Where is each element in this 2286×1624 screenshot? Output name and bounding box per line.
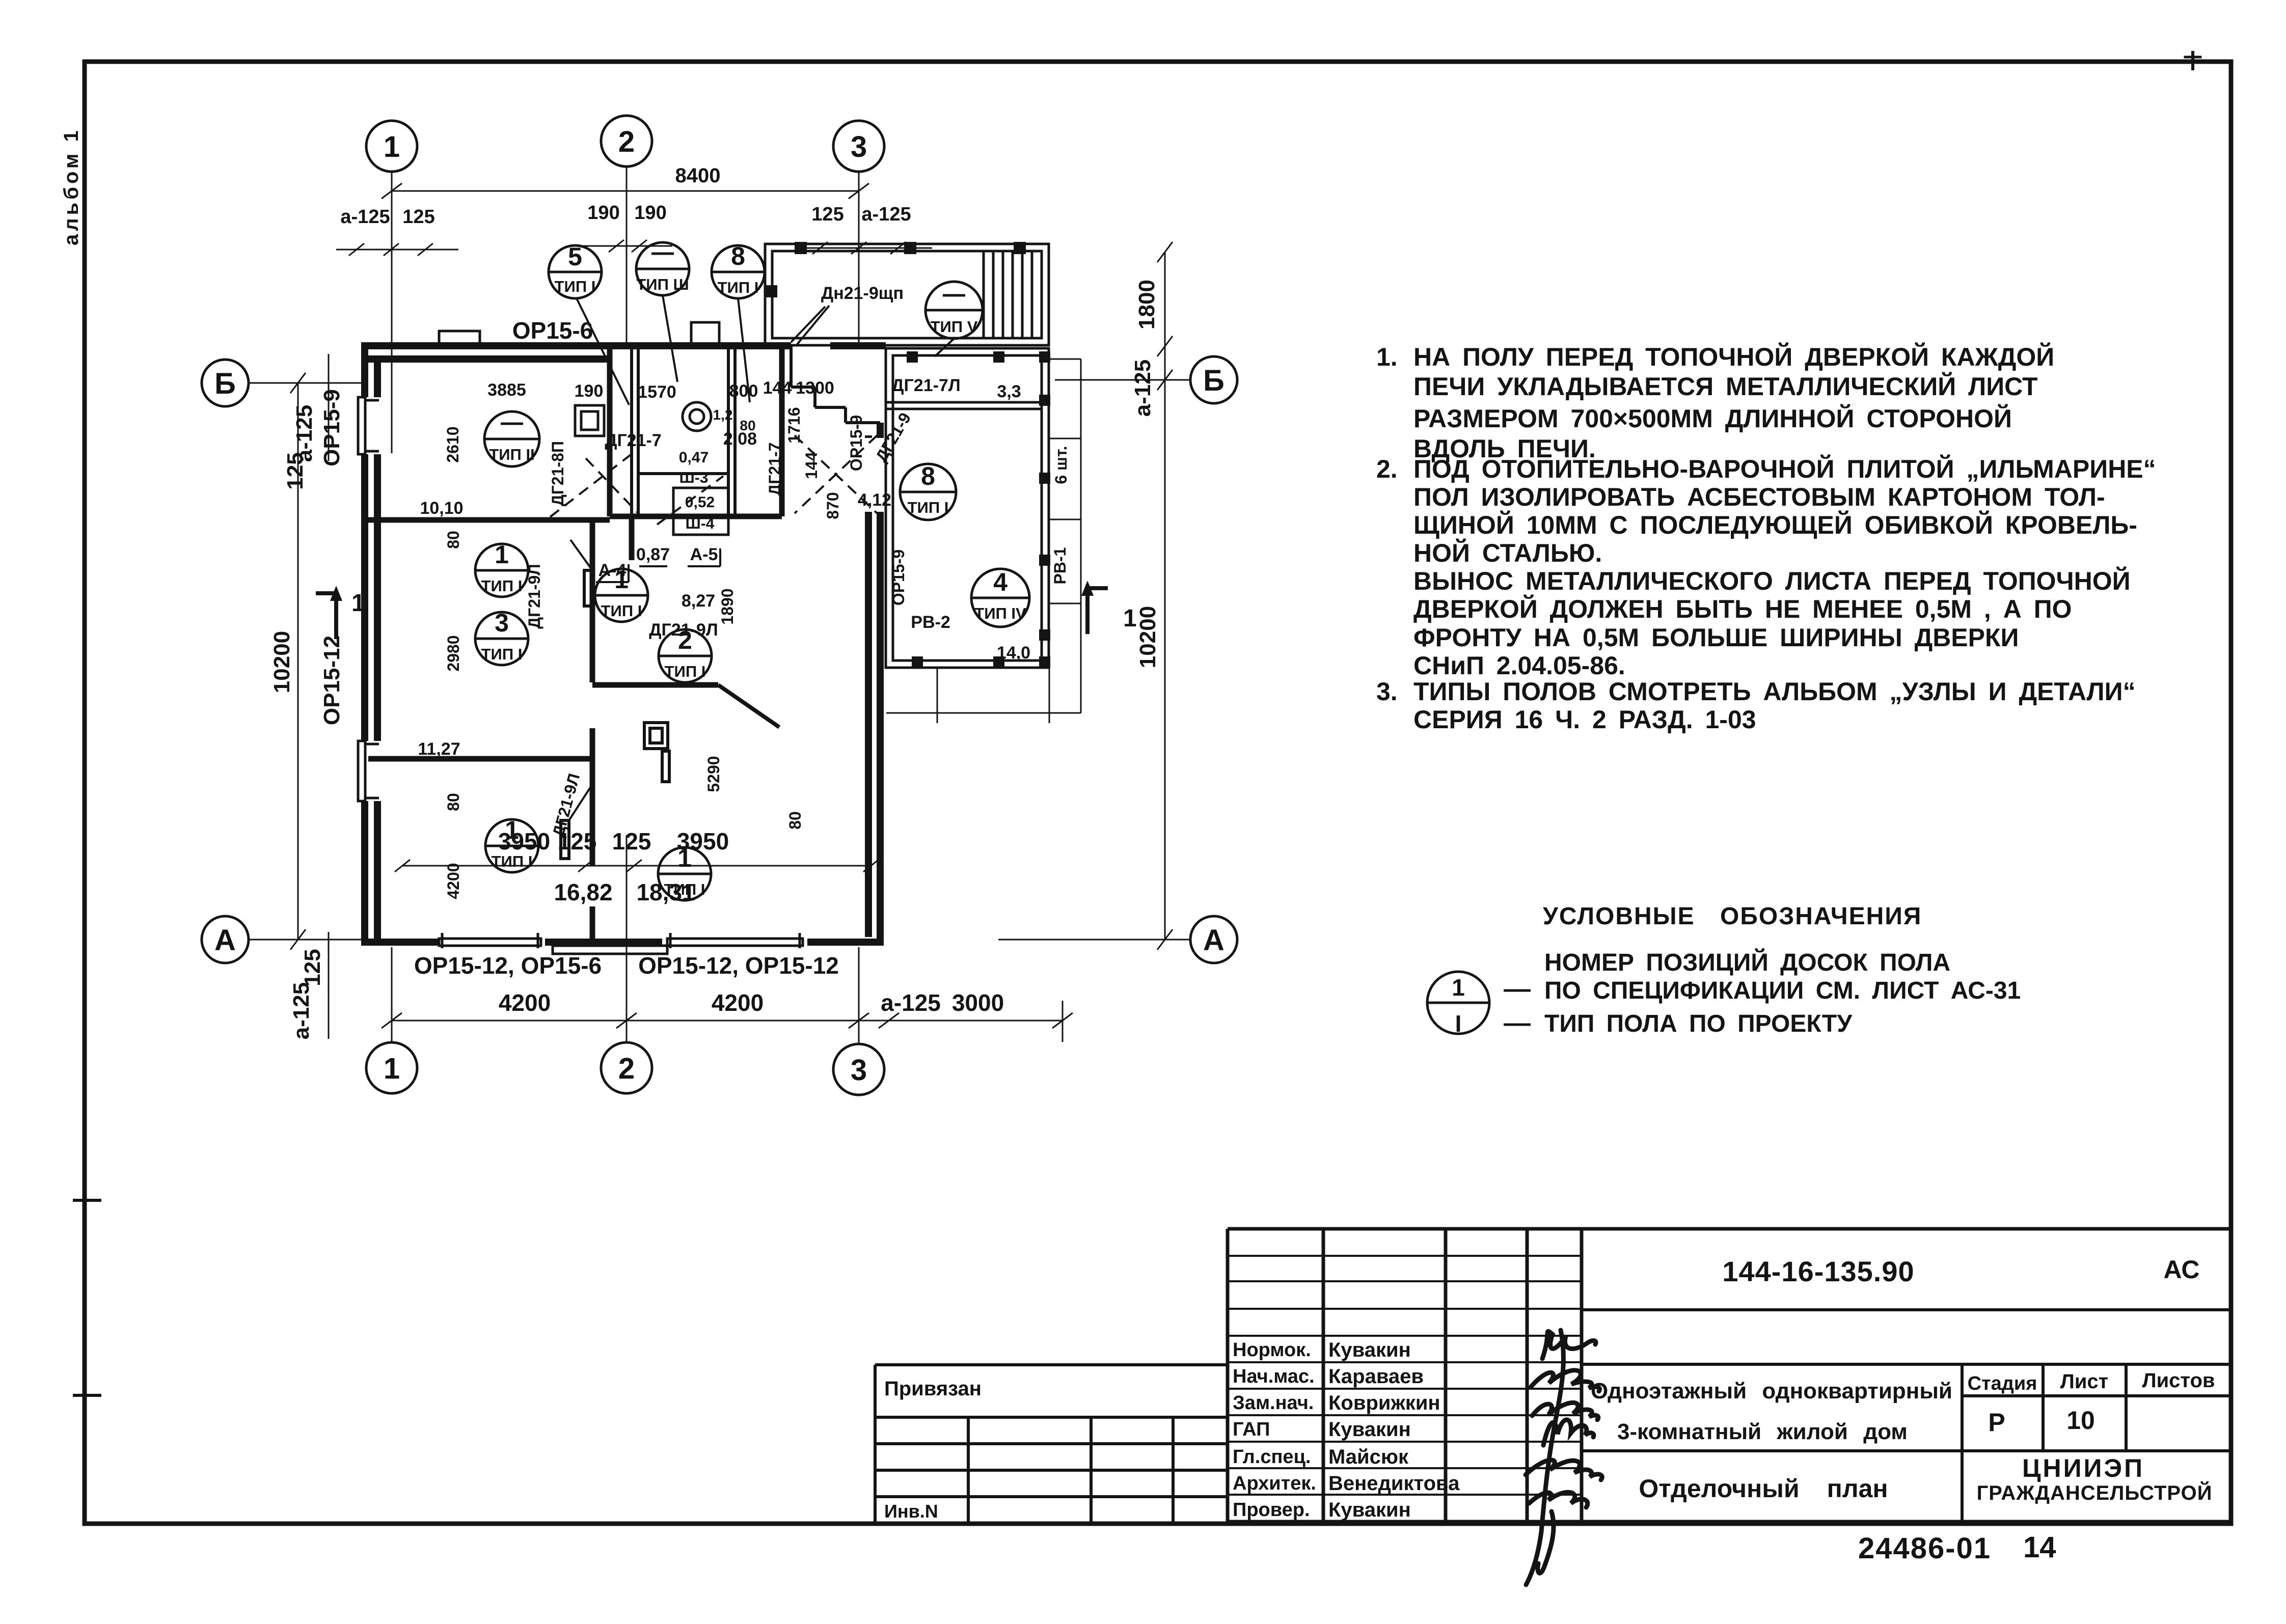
svg-text:8: 8: [731, 242, 745, 270]
svg-text:11,27: 11,27: [418, 739, 460, 759]
svg-text:3-комнатный жилой дом: 3-комнатный жилой дом: [1617, 1419, 1908, 1444]
svg-text:ОР15-12, ОР15-12: ОР15-12, ОР15-12: [638, 952, 839, 979]
svg-text:3: 3: [495, 609, 509, 637]
svg-text:80: 80: [786, 811, 804, 830]
svg-text:1: 1: [495, 540, 509, 569]
svg-text:8400: 8400: [675, 164, 721, 187]
svg-text:80: 80: [444, 531, 462, 549]
svg-text:3,3: 3,3: [997, 382, 1021, 401]
svg-text:24486-01: 24486-01: [1858, 1532, 1991, 1565]
svg-text:Кувакин: Кувакин: [1328, 1339, 1411, 1361]
svg-text:2610: 2610: [444, 426, 462, 462]
svg-text:1800: 1800: [1134, 280, 1159, 329]
svg-text:14: 14: [2023, 1531, 2056, 1564]
svg-text:ТИП I: ТИП I: [481, 577, 523, 595]
svg-text:ОР15-12: ОР15-12: [319, 636, 344, 725]
svg-text:ТИП I: ТИП I: [718, 279, 759, 296]
svg-text:Майсюк: Майсюк: [1328, 1446, 1409, 1468]
svg-text:НА ПОЛУ ПЕРЕД ТОПОЧНОЙ ДВЕРКОЙ: НА ПОЛУ ПЕРЕД ТОПОЧНОЙ ДВЕРКОЙ КАЖДОЙ: [1413, 342, 2054, 371]
svg-text:800: 800: [729, 381, 758, 401]
svg-text:2: 2: [618, 1052, 635, 1085]
svg-text:Гл.спец.: Гл.спец.: [1233, 1446, 1311, 1468]
svg-text:а-125: а-125: [289, 982, 314, 1040]
svg-text:ДГ21-8П: ДГ21-8П: [549, 441, 567, 506]
svg-text:Отделочный план: Отделочный план: [1639, 1474, 1888, 1503]
svg-text:Дн21-9щп: Дн21-9щп: [821, 284, 904, 303]
svg-text:Кувакин: Кувакин: [1328, 1499, 1411, 1521]
svg-text:ТИП IV: ТИП IV: [974, 604, 1026, 622]
svg-text:125: 125: [612, 828, 651, 855]
svg-text:Нач.мас.: Нач.мас.: [1233, 1366, 1315, 1387]
svg-text:125: 125: [811, 204, 843, 225]
svg-text:ЩИНОЙ 10ММ С ПОСЛЕДУЮЩЕЙ ОБИВК: ЩИНОЙ 10ММ С ПОСЛЕДУЮЩЕЙ ОБИВКОЙ КРОВЕЛЬ…: [1413, 510, 2137, 539]
svg-text:3: 3: [851, 130, 867, 163]
svg-text:ДГ21-9Л: ДГ21-9Л: [525, 564, 543, 628]
svg-text:Ш-3: Ш-3: [679, 470, 709, 486]
svg-text:870: 870: [824, 492, 842, 519]
svg-text:Одноэтажный одноквартирный: Одноэтажный одноквартирный: [1591, 1379, 1952, 1403]
svg-text:ОР15-6: ОР15-6: [512, 317, 593, 344]
svg-text:Лист: Лист: [2060, 1370, 2109, 1393]
svg-text:Р: Р: [1988, 1408, 2005, 1437]
svg-text:Ш-4: Ш-4: [686, 515, 715, 532]
svg-text:0,47: 0,47: [679, 449, 709, 466]
svg-text:НОМЕР ПОЗИЦИЙ ДОСОК ПОЛА: НОМЕР ПОЗИЦИЙ ДОСОК ПОЛА: [1544, 948, 1950, 976]
svg-text:0,52: 0,52: [685, 494, 715, 511]
svg-text:1570: 1570: [638, 382, 676, 402]
svg-text:2: 2: [618, 125, 635, 158]
svg-text:ЦНИИЭП: ЦНИИЭП: [2022, 1454, 2144, 1482]
svg-text:3.: 3.: [1376, 677, 1398, 706]
svg-text:6 шт.: 6 шт.: [1052, 446, 1070, 484]
svg-text:144: 144: [802, 452, 821, 479]
svg-text:190: 190: [587, 202, 619, 224]
svg-text:10: 10: [2066, 1406, 2095, 1435]
svg-text:ТИП Ш: ТИП Ш: [636, 276, 689, 293]
svg-text:А-5: А-5: [690, 545, 718, 564]
svg-text:8: 8: [921, 462, 935, 490]
svg-text:10200: 10200: [1135, 606, 1160, 668]
svg-text:10,10: 10,10: [420, 499, 463, 518]
svg-text:1716: 1716: [785, 407, 803, 443]
svg-text:Караваев: Караваев: [1328, 1365, 1424, 1388]
svg-text:I: I: [1455, 1010, 1462, 1037]
svg-text:1,2: 1,2: [713, 407, 733, 423]
svg-text:Нормок.: Нормок.: [1233, 1339, 1311, 1361]
svg-text:альбом 1: альбом 1: [60, 127, 83, 245]
svg-text:Стадия: Стадия: [1968, 1373, 2037, 1394]
svg-text:Б: Б: [214, 367, 236, 400]
svg-text:190: 190: [575, 381, 604, 401]
svg-text:а-125: а-125: [1130, 360, 1155, 417]
svg-text:Кувакин: Кувакин: [1328, 1418, 1411, 1441]
svg-text:ТИП ПОЛА ПО ПРОЕКТУ: ТИП ПОЛА ПО ПРОЕКТУ: [1544, 1010, 1853, 1037]
svg-text:ТИП II: ТИП II: [489, 446, 534, 463]
svg-text:ПОД ОТОПИТЕЛЬНО-ВАРОЧНОЙ ПЛИТО: ПОД ОТОПИТЕЛЬНО-ВАРОЧНОЙ ПЛИТОЙ „ИЛЬМАРИ…: [1413, 454, 2156, 483]
svg-text:2980: 2980: [444, 635, 462, 671]
svg-text:4200: 4200: [444, 863, 462, 899]
svg-text:ОР15-12, ОР15-6: ОР15-12, ОР15-6: [414, 952, 602, 979]
svg-text:190: 190: [634, 202, 666, 224]
svg-text:8,27: 8,27: [682, 591, 715, 611]
svg-text:ДВЕРКОЙ ДОЛЖЕН БЫТЬ НЕ МЕНЕЕ 0: ДВЕРКОЙ ДОЛЖЕН БЫТЬ НЕ МЕНЕЕ 0,5М , А ПО: [1413, 594, 2072, 623]
svg-text:1300: 1300: [796, 378, 834, 398]
svg-text:А: А: [1203, 924, 1224, 957]
svg-text:80: 80: [444, 793, 462, 811]
svg-text:ТИП V: ТИП V: [931, 318, 978, 336]
svg-text:ПЕЧИ УКЛАДЫВАЕТСЯ МЕТАЛЛИЧЕСКИ: ПЕЧИ УКЛАДЫВАЕТСЯ МЕТАЛЛИЧЕСКИЙ ЛИСТ: [1413, 372, 2038, 401]
svg-text:НОЙ СТАЛЬЮ.: НОЙ СТАЛЬЮ.: [1413, 538, 1602, 567]
svg-text:ДГ21-7: ДГ21-7: [605, 431, 662, 450]
svg-text:Архитек.: Архитек.: [1233, 1473, 1316, 1494]
svg-text:УСЛОВНЫЕ ОБОЗНАЧЕНИЯ: УСЛОВНЫЕ ОБОЗНАЧЕНИЯ: [1543, 903, 1922, 930]
svg-text:125: 125: [300, 949, 325, 986]
svg-text:Провер.: Провер.: [1233, 1499, 1310, 1521]
svg-text:ДГ21-7: ДГ21-7: [766, 443, 784, 496]
svg-text:ТИП I: ТИП I: [481, 645, 523, 663]
svg-text:а-125: а-125: [881, 989, 941, 1016]
svg-text:А: А: [214, 924, 236, 957]
svg-text:4,12: 4,12: [858, 490, 891, 510]
svg-text:144-16-135.90: 144-16-135.90: [1722, 1255, 1914, 1287]
svg-text:1: 1: [351, 590, 365, 617]
svg-text:А-4: А-4: [598, 561, 627, 580]
svg-text:ДГ21-9Л: ДГ21-9Л: [649, 620, 718, 640]
svg-text:1890: 1890: [718, 588, 737, 624]
svg-text:3000: 3000: [952, 989, 1004, 1016]
svg-text:а-125: а-125: [340, 206, 390, 228]
svg-text:ТИП I: ТИП I: [908, 499, 949, 516]
svg-text:Б: Б: [1203, 364, 1224, 397]
svg-text:1: 1: [384, 130, 400, 163]
svg-text:ТИП I: ТИП I: [492, 852, 533, 870]
svg-text:Листов: Листов: [2142, 1369, 2215, 1392]
svg-text:а-125: а-125: [861, 204, 911, 225]
svg-text:СЕРИЯ 16 Ч. 2 РАЗД. 1-03: СЕРИЯ 16 Ч. 2 РАЗД. 1-03: [1413, 705, 1756, 734]
svg-text:4200: 4200: [499, 989, 551, 1016]
svg-text:ТИП I: ТИП I: [665, 663, 706, 680]
svg-text:ТИП I: ТИП I: [601, 602, 642, 620]
svg-text:3: 3: [851, 1054, 867, 1087]
svg-text:10200: 10200: [269, 631, 294, 693]
svg-text:Коврижкин: Коврижкин: [1328, 1392, 1440, 1414]
svg-text:144: 144: [763, 378, 792, 398]
svg-text:3885: 3885: [487, 380, 526, 400]
svg-text:0,87: 0,87: [636, 545, 670, 564]
svg-text:ТИП I: ТИП I: [664, 880, 705, 898]
svg-text:80: 80: [740, 418, 755, 433]
svg-text:РВ-2: РВ-2: [911, 613, 950, 632]
svg-text:ОР15-9: ОР15-9: [319, 389, 344, 466]
svg-text:СНиП 2.04.05-86.: СНиП 2.04.05-86.: [1413, 651, 1625, 680]
svg-text:125: 125: [402, 206, 434, 228]
svg-text:ТИПЫ ПОЛОВ СМОТРЕТЬ АЛЬБОМ „УЗ: ТИПЫ ПОЛОВ СМОТРЕТЬ АЛЬБОМ „УЗЛЫ И ДЕТАЛ…: [1413, 677, 2136, 706]
svg-text:1.: 1.: [1376, 343, 1398, 371]
svg-text:1: 1: [1123, 605, 1137, 632]
svg-text:1: 1: [1452, 974, 1465, 1001]
svg-text:РАЗМЕРОМ 700×500ММ ДЛИННОЙ СТО: РАЗМЕРОМ 700×500ММ ДЛИННОЙ СТОРОНОЙ: [1413, 404, 2012, 433]
svg-text:Инв.N: Инв.N: [884, 1501, 938, 1522]
svg-text:ГРАЖДАНСЕЛЬСТРОЙ: ГРАЖДАНСЕЛЬСТРОЙ: [1977, 1481, 2213, 1504]
svg-text:ФРОНТУ НА 0,5М БОЛЬШЕ ШИРИНЫ Д: ФРОНТУ НА 0,5М БОЛЬШЕ ШИРИНЫ ДВЕРКИ: [1413, 623, 2019, 652]
svg-text:ДГ21-7Л: ДГ21-7Л: [891, 376, 960, 395]
svg-text:ГАП: ГАП: [1233, 1419, 1270, 1440]
svg-text:2.: 2.: [1376, 455, 1398, 483]
svg-text:1: 1: [677, 844, 692, 872]
svg-text:Венедиктова: Венедиктова: [1328, 1472, 1460, 1495]
svg-text:16,82: 16,82: [554, 879, 612, 905]
svg-text:АС: АС: [2164, 1255, 2200, 1284]
svg-text:4200: 4200: [712, 989, 764, 1016]
svg-text:ПО СПЕЦИФИКАЦИИ СМ. ЛИСТ АС-31: ПО СПЕЦИФИКАЦИИ СМ. ЛИСТ АС-31: [1544, 977, 2021, 1004]
svg-text:14,0: 14,0: [997, 643, 1030, 663]
svg-text:5290: 5290: [704, 756, 723, 792]
svg-text:5: 5: [568, 242, 582, 271]
svg-text:ТИП I: ТИП I: [555, 278, 596, 295]
svg-text:Зам.нач.: Зам.нач.: [1233, 1392, 1314, 1414]
svg-text:4: 4: [993, 568, 1008, 596]
svg-text:РВ-1: РВ-1: [1051, 547, 1069, 585]
svg-text:ОР15-9: ОР15-9: [889, 549, 908, 605]
svg-text:Привязан: Привязан: [884, 1378, 982, 1400]
svg-text:ПОЛ ИЗОЛИРОВАТЬ АСБЕСТОВЫМ КАР: ПОЛ ИЗОЛИРОВАТЬ АСБЕСТОВЫМ КАРТОНОМ ТОЛ-: [1413, 483, 2105, 511]
svg-text:ВЫНОС МЕТАЛЛИЧЕСКОГО ЛИСТА ПЕР: ВЫНОС МЕТАЛЛИЧЕСКОГО ЛИСТА ПЕРЕД ТОПОЧНО…: [1413, 566, 2131, 595]
svg-text:1: 1: [505, 816, 519, 844]
svg-text:125: 125: [283, 452, 308, 489]
svg-text:ОР15-9: ОР15-9: [847, 415, 865, 471]
svg-text:1: 1: [384, 1052, 400, 1085]
